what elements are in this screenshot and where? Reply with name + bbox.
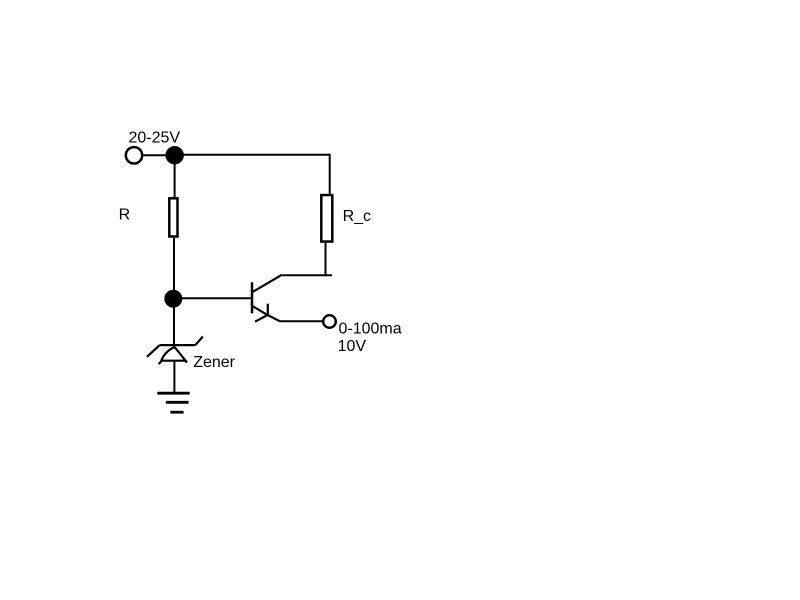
svg-text:Zener: Zener: [193, 354, 235, 371]
node A: [166, 146, 184, 164]
svg-text:20-25V: 20-25V: [129, 130, 181, 147]
wire: [173, 361, 175, 392]
terminal input: [126, 147, 142, 163]
wire: [325, 243, 327, 276]
wire: [173, 238, 175, 291]
svg-text:10V: 10V: [338, 338, 367, 355]
node B: [164, 290, 182, 308]
wire: [329, 154, 331, 194]
wire emitter: [280, 320, 323, 322]
terminal output: [323, 315, 336, 328]
wire: [173, 307, 175, 348]
ground: [157, 393, 189, 412]
wire: [175, 154, 330, 156]
wire collector horizontal: [280, 274, 332, 276]
wire: [174, 163, 176, 198]
wire base: [181, 297, 252, 299]
svg-text:R: R: [119, 207, 131, 224]
svg-text:R_c: R_c: [343, 208, 371, 225]
svg-text:0-100ma: 0-100ma: [339, 321, 402, 338]
zener diode D1: [147, 337, 203, 365]
transistor Q1: [252, 275, 281, 321]
resistor R: [169, 198, 177, 236]
resistor R_c: [321, 195, 332, 242]
wire: [144, 154, 167, 156]
